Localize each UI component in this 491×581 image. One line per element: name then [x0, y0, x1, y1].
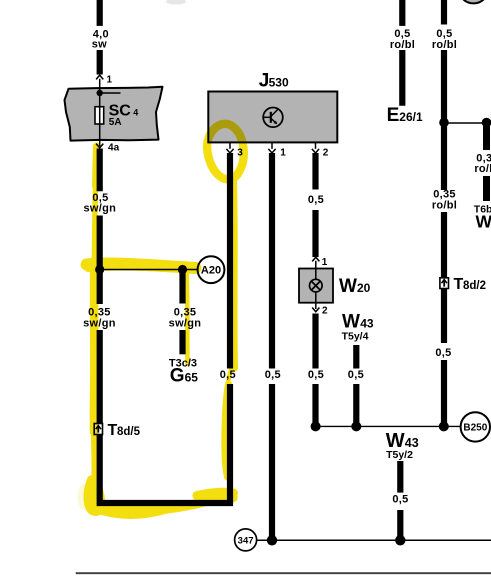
- svg-text:0,5: 0,5: [308, 369, 324, 381]
- wire thin B250 line: [316, 425, 461, 427]
- svg-text:W: W: [476, 212, 491, 232]
- node pin1 wire on 347 line: [267, 535, 277, 545]
- highlight loop around pin 3: [207, 124, 244, 179]
- wire W20 pin2 down: [308, 314, 324, 427]
- partial circle top right: [459, 0, 489, 3]
- svg-text:4a: 4a: [108, 143, 120, 154]
- svg-text:1: 1: [107, 75, 113, 86]
- label E26/1: [387, 105, 423, 126]
- svg-text:0,5: 0,5: [348, 369, 364, 381]
- svg-text:65: 65: [185, 370, 199, 384]
- separator line bottom: [76, 572, 491, 574]
- wire highlight: bottom run: [96, 498, 233, 511]
- wire highlight: left wire down to corner: [90, 266, 99, 432]
- svg-text:ro/bl: ro/bl: [390, 39, 415, 51]
- pin 2 of J530: [312, 143, 329, 159]
- svg-text:5A: 5A: [109, 117, 122, 128]
- wire 0,5 ro/bl right: [432, 0, 457, 190]
- connector T8d/5: [94, 422, 140, 439]
- svg-text:sw/gn: sw/gn: [169, 318, 202, 330]
- svg-text:2: 2: [322, 306, 328, 317]
- pin 2 of W20 (arrow down): [312, 303, 328, 317]
- svg-text:8d/5: 8d/5: [117, 426, 141, 438]
- svg-text:347: 347: [238, 536, 254, 547]
- node junction left wire / A20 line: [95, 265, 104, 274]
- node 0,5 ro/bl wire on B250 line: [439, 421, 449, 431]
- svg-text:43: 43: [360, 317, 374, 331]
- highlight corner blob: [78, 484, 92, 510]
- pin 1 of SC4 (arrow up): [96, 75, 112, 89]
- node T5y/4 wire on B250 line: [351, 421, 361, 431]
- wire J530 pin3 upper segment: [227, 153, 233, 369]
- pin 1 of J530: [268, 143, 286, 159]
- svg-text:ro/bl: ro/bl: [474, 163, 491, 175]
- svg-text:T: T: [108, 422, 118, 439]
- svg-text:B250: B250: [463, 423, 487, 434]
- wire highlight: G65 stub streak: [187, 272, 188, 364]
- svg-text:T: T: [454, 276, 464, 293]
- svg-text:G: G: [170, 365, 185, 386]
- wire J530 pin2 down to W20: [308, 153, 324, 257]
- svg-text:T5y/2: T5y/2: [386, 449, 413, 461]
- wire highlight: SC4 to junction: [96, 146, 97, 186]
- svg-text:sw: sw: [92, 38, 107, 50]
- wire 0,5 ro/bl to E26/1: [390, 0, 415, 106]
- wire battery feed top left 4,0 sw: [92, 0, 109, 75]
- wire W43 T5y/4 stub: [348, 345, 364, 426]
- pin 4a of SC4 (arrow down): [96, 141, 119, 154]
- svg-text:2: 2: [323, 148, 329, 159]
- fuse SC4 box (torn-edge): [65, 87, 163, 141]
- wire 0,35 sw/gn lower left + corner to J530 pin3: [83, 307, 230, 503]
- label T3c/3 G65: [169, 358, 198, 387]
- wire inside SC4: [99, 88, 101, 141]
- label W20: [339, 276, 371, 297]
- lamp W20 box: [299, 269, 333, 303]
- highlight splash near G65: [228, 366, 233, 384]
- wire highlight: right wire up: [234, 178, 235, 368]
- node B250: [461, 412, 490, 441]
- svg-text:0,5: 0,5: [308, 194, 324, 206]
- svg-text:26/1: 26/1: [399, 110, 423, 124]
- wire J530 pin1 down: [265, 153, 281, 540]
- fuse element symbol: [95, 107, 104, 124]
- svg-text:E: E: [387, 105, 400, 126]
- wire 0,35 sw/gn to G65: [169, 270, 202, 355]
- svg-text:20: 20: [357, 281, 371, 295]
- wire thin to A20: [100, 269, 198, 271]
- svg-text:sw/gn: sw/gn: [83, 318, 116, 330]
- label W43 T5y/4: [342, 312, 374, 343]
- lamp symbol in W20: [310, 279, 323, 292]
- svg-text:ro/bl: ro/bl: [432, 200, 457, 212]
- pin 3 of J530: [226, 143, 243, 159]
- svg-text:1: 1: [322, 257, 328, 268]
- wire highlight: horizontal to A20: [87, 263, 196, 268]
- svg-text:T5y/4: T5y/4: [342, 330, 369, 342]
- node junction G65 stub: [178, 265, 187, 274]
- control unit J530 box: [208, 71, 337, 143]
- svg-text:0,5: 0,5: [265, 369, 281, 381]
- node junction right wire: [439, 118, 449, 128]
- svg-text:0,5: 0,5: [392, 494, 408, 506]
- faint smudge top: [166, 0, 186, 5]
- label W43 T5y/2: [386, 430, 419, 461]
- electronics symbol (transistor in circle) U inside J530: [263, 108, 283, 128]
- label SC4 5A: [109, 102, 139, 127]
- svg-text:530: 530: [269, 76, 289, 90]
- svg-text:W: W: [339, 276, 357, 297]
- node: fuse feed junction: [97, 90, 103, 96]
- svg-text:ro/bl: ro/bl: [432, 39, 457, 51]
- pin 1 of W20 (arrow up): [312, 257, 328, 269]
- svg-text:1: 1: [280, 148, 286, 159]
- connector A20: [198, 256, 225, 283]
- node junction right edge: [482, 118, 491, 128]
- svg-text:8d/2: 8d/2: [463, 280, 486, 292]
- svg-text:4: 4: [133, 108, 138, 118]
- fuse feed stub line: [100, 92, 121, 94]
- wire W43 T5y/2 stub down: [392, 461, 408, 540]
- wire 0,35 ro/bl lower right: [432, 189, 457, 427]
- svg-text:A20: A20: [201, 265, 221, 277]
- svg-text:sw/gn: sw/gn: [83, 203, 116, 215]
- wire 0,5 sw/gn from SC4 down: [83, 149, 116, 305]
- node W20 wire on B250 line: [311, 421, 321, 431]
- wire thin branch to right edge: [444, 122, 487, 124]
- wire thin 347 line: [257, 539, 491, 541]
- wire right edge 0,35 ro/bl (cut): [474, 123, 491, 232]
- highlighter marks (yellow): [78, 124, 244, 516]
- connector T8d/2: [440, 276, 486, 293]
- node T5y/2 wire on 347 line: [395, 535, 405, 545]
- node 347: [235, 529, 257, 551]
- svg-text:0,5: 0,5: [435, 347, 451, 359]
